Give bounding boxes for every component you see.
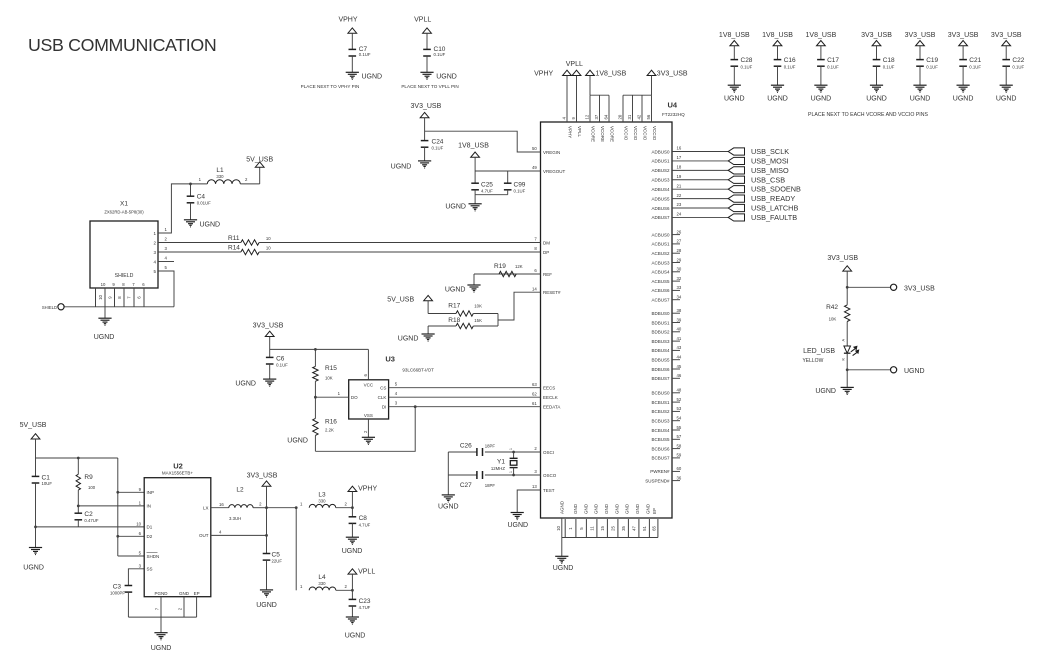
svg-text:41: 41 <box>677 336 682 341</box>
wire C26/C27 left to ground <box>447 452 449 495</box>
svg-text:UGND: UGND <box>398 336 419 343</box>
svg-text:3V3_USB: 3V3_USB <box>861 32 892 39</box>
svg-text:LED_USB: LED_USB <box>803 348 835 355</box>
svg-text:3V3_USB: 3V3_USB <box>827 255 858 262</box>
svg-text:0.1UF: 0.1UF <box>1012 65 1024 70</box>
ground UGND (C5) <box>260 589 273 591</box>
svg-text:USB_READY: USB_READY <box>751 194 795 203</box>
svg-text:BCBUS1: BCBUS1 <box>651 400 670 405</box>
svg-text:UGND: UGND <box>904 368 925 375</box>
inductor L1 <box>207 180 240 184</box>
svg-text:ACBUS5: ACBUS5 <box>651 279 670 284</box>
svg-text:1V8_USB: 1V8_USB <box>596 71 627 78</box>
svg-text:100: 100 <box>88 485 96 490</box>
ground UGND (U4 AGND) <box>555 555 568 557</box>
svg-text:56: 56 <box>646 114 651 119</box>
wire <box>351 492 353 518</box>
svg-text:18: 18 <box>677 165 682 170</box>
svg-text:BCBUS5: BCBUS5 <box>651 437 670 442</box>
svg-text:46: 46 <box>677 373 682 378</box>
port flag USB_MISO <box>728 167 744 174</box>
svg-text:UGND: UGND <box>767 96 788 103</box>
svg-text:57: 57 <box>677 434 682 439</box>
svg-text:BDBUS5: BDBUS5 <box>651 358 670 363</box>
svg-text:UGND: UGND <box>866 96 887 103</box>
ground UGND (C6) <box>263 378 276 380</box>
LED arrows <box>851 346 857 351</box>
svg-text:DM: DM <box>543 240 550 245</box>
wire 1V8 down <box>589 76 591 96</box>
svg-text:INP: INP <box>147 490 155 495</box>
svg-text:49: 49 <box>532 165 537 170</box>
wire VCCIO drop <box>651 95 653 122</box>
svg-text:3V3_USB: 3V3_USB <box>904 285 935 292</box>
port flag USB_SDOENB <box>728 186 744 193</box>
ground UGND (U3 VSS) <box>362 436 375 438</box>
wire 3V3 to L3/L4 <box>267 507 297 509</box>
svg-text:R9: R9 <box>84 474 93 481</box>
port flag USB_CSB <box>728 176 744 183</box>
ground UGND <box>346 71 359 73</box>
svg-text:R15: R15 <box>325 365 337 372</box>
svg-text:C22: C22 <box>1012 57 1024 64</box>
svg-text:EECS: EECS <box>543 386 555 391</box>
svg-text:3V3_USB: 3V3_USB <box>905 32 936 39</box>
wire <box>876 46 878 60</box>
svg-text:VREGOUT: VREGOUT <box>543 169 566 174</box>
wire junction bar <box>497 314 499 327</box>
svg-text:U4: U4 <box>668 101 678 110</box>
svg-text:ADBUS4: ADBUS4 <box>651 187 670 192</box>
svg-text:C19: C19 <box>926 57 938 64</box>
svg-text:VCCIO: VCCIO <box>624 126 629 141</box>
svg-text:UGND: UGND <box>910 96 931 103</box>
svg-text:29: 29 <box>677 257 682 262</box>
svg-text:L2: L2 <box>236 486 244 493</box>
svg-text:C16: C16 <box>784 57 796 64</box>
ground UGND (TEST) <box>511 512 524 514</box>
svg-text:LX: LX <box>203 506 209 511</box>
svg-text:UGND: UGND <box>345 633 366 640</box>
svg-text:ADBUS1: ADBUS1 <box>651 159 670 164</box>
wire X1 pin5 to shield bus <box>158 271 174 307</box>
wire 3V3 to U3 VCC <box>270 348 369 350</box>
IC U2 MAX1556ETB+ body <box>144 478 211 597</box>
svg-text:10: 10 <box>266 246 271 251</box>
svg-text:GND: GND <box>625 503 630 514</box>
svg-text:UGND: UGND <box>391 163 412 170</box>
capacitor C22 <box>1002 59 1010 61</box>
svg-text:UGND: UGND <box>438 504 459 511</box>
capacitor C1 <box>35 458 37 476</box>
svg-text:GND: GND <box>573 503 578 514</box>
power symbol 1V8_USB <box>773 41 782 46</box>
svg-text:4.7UF: 4.7UF <box>359 522 371 527</box>
wire to 3V3_USB terminal <box>847 286 890 288</box>
svg-text:C23: C23 <box>359 598 371 605</box>
wire USB_LATCHB <box>672 207 728 209</box>
ground UGND (shield) <box>98 317 111 319</box>
svg-text:R42: R42 <box>826 304 838 311</box>
svg-text:EP: EP <box>194 591 200 596</box>
svg-text:C2: C2 <box>84 511 93 518</box>
svg-text:16: 16 <box>219 502 224 507</box>
power symbol 1V8_USB (VCORE) <box>586 70 595 75</box>
svg-text:61: 61 <box>532 401 537 406</box>
svg-text:0.1UF: 0.1UF <box>883 65 895 70</box>
wire VCORE bus <box>590 94 609 96</box>
wire USB_FAULTB <box>672 216 728 218</box>
svg-text:3V3_USB: 3V3_USB <box>411 103 442 110</box>
svg-text:C28: C28 <box>741 57 753 64</box>
svg-text:C6: C6 <box>276 355 285 362</box>
svg-text:GND: GND <box>604 503 609 514</box>
wire TEST to ground <box>517 490 540 513</box>
resistor R42 <box>845 305 850 322</box>
svg-text:VCORE: VCORE <box>600 126 605 142</box>
svg-text:C17: C17 <box>827 57 839 64</box>
wire IN <box>78 505 144 507</box>
svg-text:VPLL: VPLL <box>414 17 431 24</box>
svg-text:12: 12 <box>585 114 590 119</box>
svg-text:BDBUS3: BDBUS3 <box>651 339 670 344</box>
wire <box>733 46 735 60</box>
resistor R19 <box>499 271 516 276</box>
wire <box>336 589 353 591</box>
wire D1/ground sense <box>35 526 144 528</box>
svg-text:UGND: UGND <box>953 96 974 103</box>
svg-text:OUT: OUT <box>199 533 209 538</box>
svg-text:0.1UF: 0.1UF <box>514 188 526 193</box>
svg-text:3V3_USB: 3V3_USB <box>948 32 979 39</box>
svg-text:DP: DP <box>543 250 549 255</box>
wire <box>473 274 475 285</box>
svg-text:PLACE NEXT TO EACH VCORE AND V: PLACE NEXT TO EACH VCORE AND VCCIO PINS <box>808 112 928 118</box>
wire <box>351 33 353 49</box>
svg-text:2.2K: 2.2K <box>325 428 334 433</box>
svg-text:BDBUS4: BDBUS4 <box>651 348 670 353</box>
svg-text:330: 330 <box>318 581 326 586</box>
ground UGND (U2) <box>154 632 167 634</box>
terminal SHIELD <box>58 304 64 310</box>
svg-text:23: 23 <box>677 202 682 207</box>
wire shield ground <box>104 307 106 318</box>
wire 3V3 node vertical <box>266 486 268 554</box>
svg-text:IN: IN <box>147 504 152 509</box>
wire DM <box>158 242 241 244</box>
svg-text:VCCIO: VCCIO <box>652 126 657 141</box>
svg-text:4.7UF: 4.7UF <box>359 605 371 610</box>
svg-text:PGND: PGND <box>154 591 168 596</box>
svg-text:17: 17 <box>677 155 682 160</box>
wire <box>820 46 822 60</box>
wire OSCI <box>485 451 541 453</box>
wire GND down <box>183 597 185 617</box>
svg-text:L3: L3 <box>318 491 326 498</box>
port flag USB_FAULTB <box>728 214 744 221</box>
svg-text:ADBUS0: ADBUS0 <box>651 149 670 154</box>
svg-text:DO: DO <box>351 395 358 400</box>
capacitor C24 <box>421 140 429 142</box>
svg-text:0.1UF: 0.1UF <box>359 52 371 57</box>
svg-text:3V3_USB: 3V3_USB <box>253 323 284 330</box>
svg-text:27: 27 <box>677 239 682 244</box>
svg-text:10: 10 <box>556 526 561 531</box>
svg-text:UGND: UGND <box>94 334 115 341</box>
svg-text:44: 44 <box>677 355 682 360</box>
svg-text:31: 31 <box>627 114 632 119</box>
ground UGND (C24) <box>418 160 431 162</box>
power symbol 3V3_USB <box>959 41 968 46</box>
svg-text:UGND: UGND <box>256 602 277 609</box>
wire X1 pin1 VBUS <box>158 184 207 233</box>
wire 3V3 down <box>651 76 653 96</box>
svg-text:10UF: 10UF <box>42 481 53 486</box>
ground UGND <box>728 84 741 86</box>
svg-text:93LC66BT-I/OT: 93LC66BT-I/OT <box>402 368 434 373</box>
svg-text:VCORE: VCORE <box>591 126 596 142</box>
svg-text:X1: X1 <box>120 201 128 208</box>
svg-text:54: 54 <box>677 416 682 421</box>
svg-text:BCBUS6: BCBUS6 <box>651 446 670 451</box>
svg-text:36: 36 <box>677 475 682 480</box>
svg-text:VCCIO: VCCIO <box>643 126 648 141</box>
svg-text:R17: R17 <box>448 303 460 310</box>
svg-text:BDBUS6: BDBUS6 <box>651 367 670 372</box>
svg-text:3V3_USB: 3V3_USB <box>247 473 278 480</box>
wire <box>351 606 353 617</box>
capacitor C7 <box>349 48 357 50</box>
svg-text:58: 58 <box>677 443 682 448</box>
wire <box>962 46 964 60</box>
svg-text:ADBUS2: ADBUS2 <box>651 168 670 173</box>
resistor R14 <box>241 249 259 254</box>
svg-text:0.1UF: 0.1UF <box>434 52 446 57</box>
svg-text:OSCI: OSCI <box>543 450 554 455</box>
svg-text:63: 63 <box>532 382 537 387</box>
svg-text:PLACE NEXT TO VPHY PIN: PLACE NEXT TO VPHY PIN <box>301 84 360 89</box>
LED cathode bar <box>844 352 851 354</box>
svg-text:C3: C3 <box>113 583 122 590</box>
ground UGND <box>870 84 883 86</box>
wire <box>1005 66 1007 85</box>
power symbol VPHY <box>348 28 357 33</box>
svg-text:USB_FAULTB: USB_FAULTB <box>751 213 797 222</box>
svg-text:AGND: AGND <box>560 500 565 514</box>
svg-text:MAX1556ETB+: MAX1556ETB+ <box>162 471 194 476</box>
svg-text:11: 11 <box>589 526 594 531</box>
crystal Y1 12MHZ <box>513 452 515 458</box>
wire VCCIO drop <box>632 95 634 122</box>
wire DM to U4 <box>259 242 540 244</box>
svg-text:UGND: UGND <box>287 437 308 444</box>
ground UGND (R19) <box>467 284 480 286</box>
svg-text:FT2232HQ: FT2232HQ <box>662 112 685 117</box>
svg-text:C5: C5 <box>272 552 281 559</box>
wire <box>259 167 261 184</box>
svg-text:PWREN#: PWREN# <box>650 469 670 474</box>
IC U3 93LC66BT-I/OT body <box>349 380 389 419</box>
svg-text:24: 24 <box>677 212 682 217</box>
port flag USB_READY <box>728 195 744 202</box>
svg-text:SS: SS <box>147 567 153 572</box>
svg-text:43: 43 <box>677 345 682 350</box>
svg-text:VPLL: VPLL <box>577 126 582 138</box>
capacitor C4 <box>189 183 192 186</box>
svg-text:ADBUS7: ADBUS7 <box>651 215 670 220</box>
power symbol 3V3_USB (VCCIO) <box>647 70 656 75</box>
ground UGND <box>957 84 970 86</box>
wire <box>1005 46 1007 60</box>
wire SS <box>128 569 144 586</box>
svg-text:50: 50 <box>532 146 537 151</box>
svg-text:ADBUS6: ADBUS6 <box>651 206 670 211</box>
wire to UGND terminal <box>847 369 890 371</box>
wire SHDN <box>118 555 144 557</box>
svg-text:ACBUS0: ACBUS0 <box>651 232 670 237</box>
wire U2 ground bus <box>128 616 196 618</box>
wire <box>473 325 498 327</box>
power symbol 3V3_USB <box>1002 41 1011 46</box>
capacitor C16 <box>774 59 782 61</box>
svg-text:VPLL: VPLL <box>566 61 583 68</box>
wire shield bus <box>64 306 174 308</box>
SHDN overbar <box>147 552 158 554</box>
wire <box>919 46 921 60</box>
ground UGND <box>420 71 433 73</box>
svg-text:0.1UF: 0.1UF <box>741 65 753 70</box>
svg-text:38: 38 <box>677 308 682 313</box>
svg-text:30: 30 <box>677 267 682 272</box>
svg-text:35: 35 <box>621 526 626 531</box>
svg-text:28: 28 <box>677 248 682 253</box>
wire <box>240 183 259 185</box>
svg-text:BDBUS1: BDBUS1 <box>651 320 670 325</box>
svg-text:GND: GND <box>614 503 619 514</box>
wire <box>777 66 779 85</box>
wire <box>424 118 426 141</box>
ground UGND (LED) <box>841 386 854 388</box>
svg-text:42: 42 <box>637 114 642 119</box>
svg-text:EP: EP <box>652 508 657 514</box>
svg-text:GND: GND <box>645 503 650 514</box>
ground UGND <box>913 84 926 86</box>
svg-text:R18: R18 <box>448 317 460 324</box>
wire <box>269 337 271 358</box>
svg-text:15K: 15K <box>474 318 482 323</box>
ground UGND (R18) <box>422 333 435 335</box>
ground UGND (C23) <box>346 616 359 618</box>
svg-text:5V_USB: 5V_USB <box>387 297 414 304</box>
svg-text:10K: 10K <box>474 304 482 309</box>
U3 pin 6 VCC <box>367 349 369 379</box>
wire 5V vertical <box>117 458 119 556</box>
svg-text:SHIELD: SHIELD <box>115 273 134 279</box>
wire USB_MISO <box>672 169 728 171</box>
ground UGND <box>814 84 827 86</box>
svg-text:12MHZ: 12MHZ <box>491 466 505 471</box>
svg-text:12K: 12K <box>515 264 523 269</box>
svg-text:ZX62RD-AB-5P8(30): ZX62RD-AB-5P8(30) <box>104 210 144 215</box>
svg-text:BDBUS2: BDBUS2 <box>651 330 670 335</box>
svg-text:BDBUS7: BDBUS7 <box>651 376 670 381</box>
svg-text:USB_LATCHB: USB_LATCHB <box>751 204 798 213</box>
wire <box>35 439 37 458</box>
svg-text:USB_SDOENB: USB_SDOENB <box>751 185 801 194</box>
svg-text:D1: D1 <box>147 525 153 530</box>
capacitor C10 <box>423 48 431 50</box>
svg-text:59: 59 <box>677 453 682 458</box>
svg-text:13: 13 <box>532 484 537 489</box>
ground UGND (C4) <box>184 219 197 221</box>
svg-text:GND: GND <box>179 591 190 596</box>
wire USB_SDOENB <box>672 188 728 190</box>
capacitor C19 <box>916 59 924 61</box>
svg-text:L1: L1 <box>216 167 224 174</box>
wire <box>426 56 428 72</box>
svg-text:0.1UF: 0.1UF <box>276 362 288 367</box>
U3 pin 2 VSS <box>367 419 369 437</box>
svg-text:32: 32 <box>677 276 682 281</box>
svg-text:C26: C26 <box>460 442 472 449</box>
svg-text:0.01UF: 0.01UF <box>197 201 211 206</box>
svg-text:4.7UF: 4.7UF <box>481 188 493 193</box>
wire EP down <box>196 597 198 617</box>
wire R18 to ground <box>427 326 429 334</box>
wire <box>269 364 271 379</box>
capacitor C21 <box>959 59 967 61</box>
svg-text:0.1UF: 0.1UF <box>969 65 981 70</box>
svg-text:C99: C99 <box>514 181 526 188</box>
svg-text:USB_MOSI: USB_MOSI <box>751 156 789 165</box>
svg-text:UGND: UGND <box>815 388 836 395</box>
wire DP to U4 <box>259 251 540 253</box>
svg-text:C4: C4 <box>197 194 206 201</box>
wire DP <box>158 251 241 253</box>
svg-text:22: 22 <box>677 193 682 198</box>
svg-text:OSCO: OSCO <box>543 473 557 478</box>
wire AGND down <box>561 518 563 556</box>
svg-text:GND: GND <box>594 503 599 514</box>
svg-text:SHDN: SHDN <box>147 554 160 559</box>
resistor R18 <box>428 325 456 327</box>
svg-text:PLACE NEXT TO VPLL PIN: PLACE NEXT TO VPLL PIN <box>401 84 458 89</box>
svg-text:GND: GND <box>635 503 640 514</box>
svg-text:UGND: UGND <box>996 96 1017 103</box>
svg-text:USB_CSB: USB_CSB <box>751 175 785 184</box>
wire <box>336 507 353 509</box>
svg-text:ACBUS4: ACBUS4 <box>651 270 670 275</box>
wire <box>351 574 353 600</box>
svg-text:UGND: UGND <box>362 74 383 81</box>
svg-text:15: 15 <box>600 526 605 531</box>
svg-text:C24: C24 <box>432 138 444 145</box>
wire VCCIO drop <box>622 95 624 122</box>
svg-text:47: 47 <box>631 526 636 531</box>
svg-text:UGND: UGND <box>436 74 457 81</box>
svg-text:R16: R16 <box>325 419 337 426</box>
svg-text:C21: C21 <box>969 57 981 64</box>
wire PGND down <box>160 597 162 633</box>
wire <box>846 322 848 347</box>
svg-text:60: 60 <box>677 466 682 471</box>
svg-text:16: 16 <box>677 146 682 151</box>
wire REF <box>474 273 541 275</box>
port flag USB_MOSI <box>728 157 744 164</box>
capacitor C3 <box>125 585 133 587</box>
wire <box>35 483 37 548</box>
svg-text:18PF: 18PF <box>485 443 496 448</box>
